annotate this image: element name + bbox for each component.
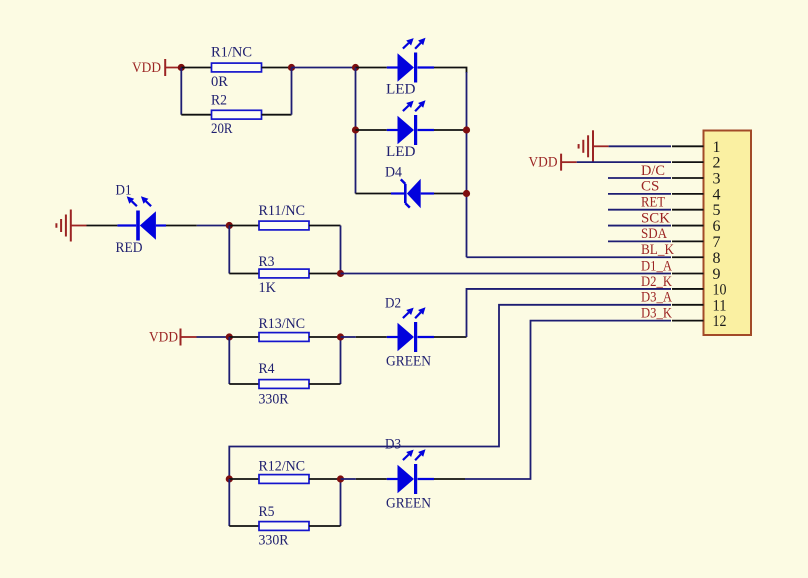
svg-text:20R: 20R [211,121,233,137]
svg-text:SCK: SCK [641,210,670,226]
wire R12 left pin [229,478,259,480]
svg-text:6: 6 [713,218,721,235]
wire net RET stub to pin 5 [608,209,671,211]
wire D1 anode pin [166,225,197,227]
connector pin 3 stub [672,177,704,179]
wire R4 right pin [309,383,341,385]
svg-text:R1/NC: R1/NC [211,45,252,61]
node H junction R3/R11 output, net D1_A [337,270,344,277]
resistor R4 [259,380,309,389]
node L junction R12/R5 output [337,475,344,482]
connector pin 1 stub [672,145,704,147]
resistor R11 [259,221,309,230]
wire R4 left pin [229,383,259,385]
svg-text:10: 10 [713,281,727,298]
wire ground to connector pin 1 [609,145,671,147]
resistor R13 [259,333,309,342]
resistor R12 [259,475,309,484]
svg-text:RET: RET [641,195,665,211]
LED LED2 (middle) [387,129,398,131]
svg-text:2: 2 [713,155,721,172]
svg-text:3: 3 [713,171,721,188]
connector pin 9 stub [672,273,704,275]
wire net CS stub to pin 4 [608,193,671,195]
wire net SCK stub to pin 6 [608,225,671,227]
svg-text:R5: R5 [259,504,275,520]
wire right branch down to R4 [340,337,342,384]
LED LED1 (top) [387,66,398,68]
LED D2 (GREEN) [387,336,398,338]
wire D2 anode pin [356,336,387,338]
connector pin 7 stub [672,240,704,242]
svg-text:R13/NC: R13/NC [259,316,306,332]
wire R1 left pin [181,67,211,69]
wire VDD to node I [197,336,230,338]
svg-text:D4: D4 [385,165,402,181]
svg-text:D/C: D/C [641,163,665,179]
wire R11 left pin [229,225,259,227]
connector pin 5 stub [672,209,704,211]
wire branch down to R2 left [180,68,182,115]
connector pin 12 stub [672,320,704,322]
wire left branch down to R3 [228,226,230,274]
svg-text:9: 9 [713,266,721,283]
svg-text:D3_A: D3_A [641,290,672,306]
svg-text:330R: 330R [259,392,289,408]
svg-text:CS: CS [641,179,659,195]
connector pin 10 stub [672,288,704,290]
svg-text:330R: 330R [259,533,289,549]
svg-text:LED: LED [386,144,416,160]
svg-text:R11/NC: R11/NC [259,203,306,219]
zener diode D4 [391,192,404,194]
svg-text:LED: LED [386,82,416,98]
wire net D3_A from connector pin 11 [229,305,671,479]
wire R5 right pin [309,525,341,527]
node E junction cathode bus / LED2 [463,126,470,133]
connector pin 8 stub [672,256,704,258]
ground symbol (left) [70,210,72,242]
ground symbol (top-right) [592,130,594,162]
wire net D2_K up to connector pin 10 [467,289,672,337]
resistor R5 [259,522,309,531]
wire net D/C stub to pin 3 [608,177,671,179]
svg-text:D2_K: D2_K [641,274,672,290]
wire LED1 anode pin [356,67,387,69]
node K junction D3_A/R12/R5 [226,475,233,482]
resistor R3 [259,269,309,278]
svg-text:12: 12 [713,313,727,330]
connector J1 (12-pin header) [704,131,752,336]
svg-text:R12/NC: R12/NC [259,458,306,474]
node B junction R1/R2 output [288,64,295,71]
node F junction cathode bus / D4 [463,190,470,197]
svg-text:7: 7 [713,234,721,251]
wire D4 right pin [434,193,467,195]
node D junction anode bus / LED2 [352,126,359,133]
LED D1 (RED) [117,224,136,226]
svg-text:GREEN: GREEN [386,496,431,512]
svg-text:D3: D3 [385,436,401,452]
wire R2 right up to node B [291,68,293,115]
svg-text:BL_K: BL_K [641,242,674,258]
wire right branch down to R3 [340,226,342,274]
svg-text:VDD: VDD [529,155,558,171]
wire left branch down to R5 [228,479,230,526]
wire R3 left pin [229,273,259,275]
wire D1 to node G [197,225,230,227]
wire D3 anode pin [356,478,387,480]
svg-text:D1_A: D1_A [641,258,672,274]
svg-text:R2: R2 [211,93,227,109]
wire node L to D3 [341,478,356,480]
resistor R1 [212,63,262,72]
svg-text:8: 8 [713,250,721,267]
svg-text:R3: R3 [259,254,275,270]
node I junction VDD/R13/R4 [226,333,233,340]
wire R2 right pin [262,114,292,116]
connector pin 2 stub [672,161,704,163]
svg-text:4: 4 [713,186,721,203]
node J junction R13/R4 output [337,333,344,340]
wire left branch down to R4 [228,337,230,384]
node C junction LED anode bus top [352,64,359,71]
wire net BL_K to connector pin 8 [467,256,672,258]
wire anode bus vertical [355,68,357,194]
wire node B to LED stack [292,67,356,69]
wire node J to D2 [341,336,356,338]
wire cathode bus vertical [466,72,468,257]
node A junction VDD/R1/R2 [178,64,185,71]
wire R1 right pin [262,67,292,69]
svg-text:11: 11 [713,297,727,314]
wire R2 left pin [181,114,211,116]
svg-text:D2: D2 [385,296,401,312]
wire LED2 cathode pin [434,129,467,131]
wire net D1_A to connector pin 9 [341,273,672,275]
connector pin 11 stub [672,304,704,306]
wire net SDA stub to pin 7 [608,240,671,242]
svg-text:R4: R4 [259,361,275,377]
wire D1 cathode pin [87,225,118,227]
wire R12 right pin [309,478,341,480]
wire LED1 cathode to right bus [434,68,467,74]
wire VDD to connector pin 2 [577,161,671,163]
wire right branch down to R5 [340,479,342,526]
connector pin 4 stub [672,193,704,195]
wire R11 right pin [309,225,341,227]
svg-text:SDA: SDA [641,226,667,242]
wire LED2 anode pin [356,129,387,131]
svg-text:GREEN: GREEN [386,353,431,369]
wire net D3_K up to connector pin 12 [465,321,671,479]
svg-text:D1: D1 [116,183,132,199]
LED D3 (GREEN) [387,478,398,480]
wire R3 right pin [309,273,341,275]
svg-text:VDD: VDD [149,330,178,346]
wire D3 cathode pin [434,478,465,480]
wire D4 anode pin (left) [356,193,392,195]
connector pin 6 stub [672,225,704,227]
wire R13 left pin [229,336,259,338]
wire R5 left pin [229,525,259,527]
node G junction D1/R11/R3 [226,222,233,229]
svg-text:RED: RED [116,240,143,256]
resistor R2 [212,110,262,119]
svg-text:5: 5 [713,202,721,219]
svg-text:1K: 1K [259,280,277,296]
svg-text:0R: 0R [211,74,228,90]
svg-text:VDD: VDD [132,60,161,76]
svg-text:1: 1 [713,139,721,156]
svg-text:D3_K: D3_K [641,305,672,321]
wire R13 right pin [309,336,341,338]
wire D2 cathode pin [434,336,467,338]
